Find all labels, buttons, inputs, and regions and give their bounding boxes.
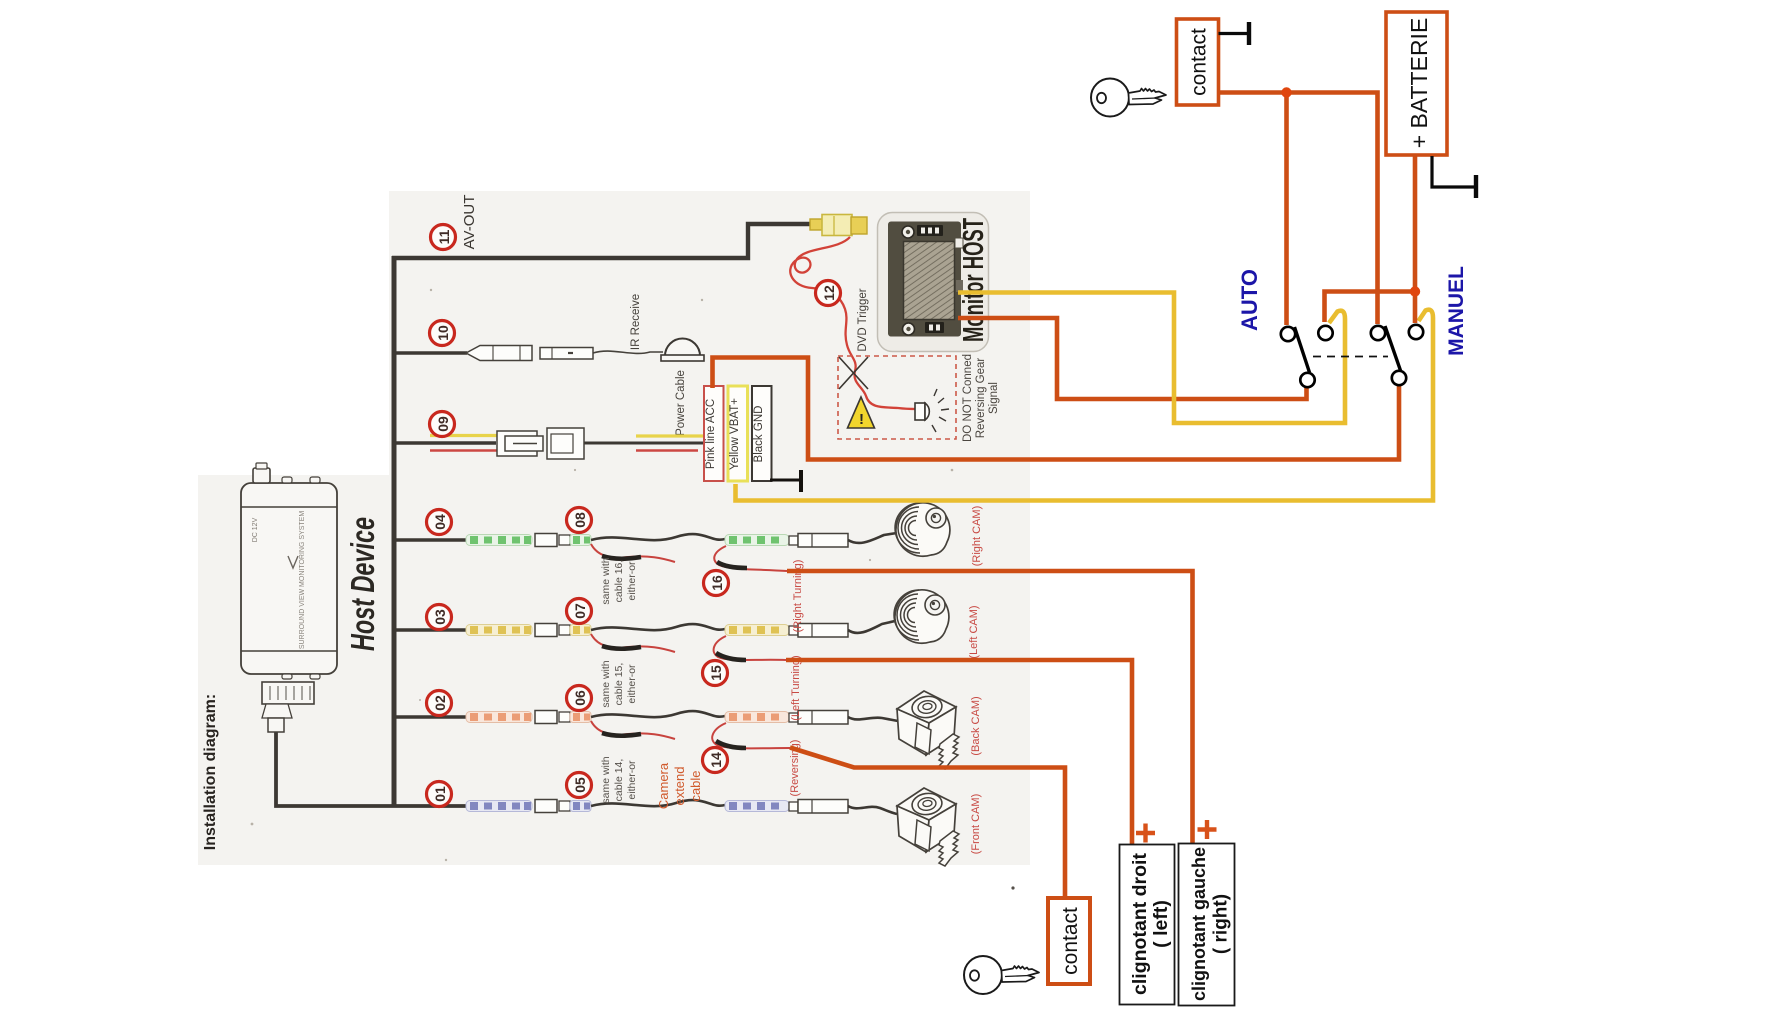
back CAM cube camera bbox=[897, 691, 959, 769]
front CAM cube camera bbox=[897, 788, 959, 866]
circle 04 bbox=[427, 510, 452, 535]
svg-text:16: 16 bbox=[709, 575, 725, 591]
svg-text:11: 11 bbox=[436, 229, 452, 244]
junction node at batterie wire bbox=[1410, 286, 1420, 296]
wire branch 02 bbox=[392, 715, 468, 719]
switch terminal C3 bbox=[1371, 326, 1385, 340]
switch terminal C2 bbox=[1318, 326, 1332, 340]
switch terminal C4 bbox=[1409, 325, 1423, 339]
svg-text:06: 06 bbox=[572, 690, 588, 706]
svg-text:contact: contact bbox=[1188, 28, 1211, 96]
svg-text:01: 01 bbox=[432, 786, 448, 802]
label same with cable 15 bbox=[600, 660, 638, 707]
svg-text:AUTO: AUTO bbox=[1237, 269, 1262, 331]
svg-text:02: 02 bbox=[432, 695, 448, 711]
svg-text:07: 07 bbox=[572, 603, 588, 619]
wire yellow: VBAT+ label to switch C4 bbox=[736, 310, 1434, 501]
wire orange: right turning to clignotant gauche bbox=[787, 571, 1193, 844]
label same with cable 14 bbox=[600, 756, 638, 803]
cable row 02 (back cam) bbox=[466, 711, 898, 749]
monitor HOST image bbox=[878, 213, 989, 352]
X mark bbox=[839, 357, 868, 389]
svg-text:cable 15,: cable 15, bbox=[613, 663, 625, 706]
key at contact bbox=[1091, 79, 1166, 117]
cable row 03 (left cam) bbox=[466, 621, 895, 660]
batterie box bbox=[1386, 12, 1447, 155]
svg-text:either-or: either-or bbox=[626, 664, 638, 704]
svg-text:Reversing Gear: Reversing Gear bbox=[975, 358, 987, 439]
ground at batterie bbox=[1432, 156, 1476, 187]
circle 09 bbox=[430, 412, 455, 437]
svg-text:10: 10 bbox=[435, 325, 451, 341]
svg-text:Black GND: Black GND bbox=[753, 406, 765, 463]
right CAM ball camera bbox=[895, 503, 950, 556]
cable row 04 (right cam) bbox=[466, 533, 897, 571]
svg-text:cable: cable bbox=[688, 770, 703, 801]
svg-text:03: 03 bbox=[432, 609, 448, 625]
svg-text:IR Receive: IR Receive bbox=[630, 294, 642, 350]
svg-text:either-or: either-or bbox=[626, 561, 638, 601]
svg-text:same with: same with bbox=[600, 660, 612, 707]
svg-text:SURROUND VIEW MONITORING SYSTE: SURROUND VIEW MONITORING SYSTEM bbox=[299, 511, 306, 649]
reversing lamp icon bbox=[915, 403, 925, 420]
svg-text:same with: same with bbox=[600, 756, 612, 803]
svg-text:clignotant gauche: clignotant gauche bbox=[1189, 847, 1209, 1001]
circle 15 bbox=[703, 661, 728, 686]
scan paper background upper bbox=[389, 191, 1030, 865]
switch lever 1 bbox=[1295, 327, 1310, 373]
wire branch 04 bbox=[392, 538, 468, 542]
svg-text:05: 05 bbox=[572, 777, 588, 793]
switch gang dashed link bbox=[1313, 356, 1388, 358]
svg-text:Pink line ACC: Pink line ACC bbox=[705, 399, 717, 469]
svg-text:MANUEL: MANUEL bbox=[1445, 266, 1468, 356]
IR receiver connector on branch 10 bbox=[466, 346, 593, 361]
junction node at contact wire bbox=[1281, 87, 1291, 97]
switch terminal C6 bbox=[1392, 371, 1406, 385]
IR receive dome bbox=[665, 339, 700, 357]
DVD trigger red wire bbox=[790, 237, 917, 409]
circle 12 bbox=[816, 281, 841, 306]
lower contact box bbox=[1048, 898, 1090, 984]
svg-text:(Right CAM): (Right CAM) bbox=[971, 506, 983, 567]
svg-text:Yellow VBAT+: Yellow VBAT+ bbox=[729, 398, 741, 470]
svg-text:(Back CAM): (Back CAM) bbox=[970, 696, 982, 755]
wire orange: contact to switch terminals C1 C3 bbox=[1219, 93, 1378, 325]
wire orange: reversing to lower contact bbox=[790, 748, 1065, 900]
svg-text:Camera: Camera bbox=[656, 762, 671, 809]
circle 03 bbox=[427, 605, 452, 630]
clignotant gauche box bbox=[1179, 844, 1235, 1006]
warning dashed box bbox=[838, 356, 956, 439]
RCA plug AV-OUT bbox=[810, 219, 823, 230]
plus sign gauche bbox=[1198, 820, 1217, 839]
wire branch 01 and host cable bbox=[276, 732, 468, 806]
svg-text:( right): ( right) bbox=[1211, 894, 1232, 954]
label box Yellow VBAT+ bbox=[728, 386, 748, 481]
circle 08 bbox=[567, 508, 592, 533]
scan paper background lower-left bbox=[198, 475, 393, 865]
svg-text:04: 04 bbox=[432, 514, 448, 530]
svg-text:( left): ( left) bbox=[1150, 900, 1172, 948]
circle 10 bbox=[430, 321, 455, 346]
power cable branch 09 colored leads bbox=[430, 434, 497, 437]
svg-text:DO NOT Conned: DO NOT Conned bbox=[962, 354, 974, 442]
scan speckles bbox=[251, 289, 954, 861]
circle 14 bbox=[703, 748, 728, 773]
svg-text:Signal: Signal bbox=[988, 382, 1000, 414]
svg-text:either-or: either-or bbox=[626, 760, 638, 800]
wire branch 09 bbox=[392, 441, 496, 445]
svg-text:Power Cable: Power Cable bbox=[675, 370, 687, 436]
svg-text:cable 16,: cable 16, bbox=[613, 560, 625, 603]
svg-text:clignotant droit: clignotant droit bbox=[1129, 853, 1151, 995]
cable row 01 (front cam) bbox=[466, 800, 897, 815]
circle 06 bbox=[567, 686, 592, 711]
wire orange: monitor to switch common C5 bbox=[958, 318, 1307, 399]
circle 11 bbox=[431, 225, 456, 250]
left CAM ball camera bbox=[894, 590, 949, 643]
switch lever 2 bbox=[1385, 326, 1401, 371]
circle 01 bbox=[427, 782, 452, 807]
label box Black GND bbox=[752, 386, 772, 481]
svg-text:DVD Trigger: DVD Trigger bbox=[857, 288, 869, 351]
wire branch 10 bbox=[392, 351, 467, 355]
svg-text:Monitor HOST: Monitor HOST bbox=[958, 218, 990, 342]
svg-text:(Front CAM): (Front CAM) bbox=[970, 794, 982, 855]
svg-text:Installation diagram:: Installation diagram: bbox=[202, 694, 219, 850]
wire yellow: monitor to switch C2 bbox=[958, 293, 1345, 424]
wire orange: ACC label to switch common C6 bbox=[713, 358, 1400, 460]
circle 02 bbox=[427, 691, 452, 716]
svg-text:!: ! bbox=[859, 411, 864, 428]
label DO NOT Conned Reversing Gear Signal bbox=[962, 354, 1000, 442]
wire orange: batterie to switch terminals C2 C4 bbox=[1413, 154, 1418, 323]
wire branch 03 bbox=[392, 628, 468, 632]
wire to IR dome bbox=[593, 351, 663, 353]
clignotant droit box bbox=[1120, 845, 1175, 1005]
switch terminal C5 bbox=[1300, 373, 1314, 387]
svg-text:14: 14 bbox=[708, 752, 724, 768]
svg-text:15: 15 bbox=[708, 665, 724, 681]
svg-text:same with: same with bbox=[600, 557, 612, 604]
wire orange: left turning to clignotant droit bbox=[786, 660, 1132, 845]
ground at contact bbox=[1219, 32, 1250, 35]
svg-text:extend: extend bbox=[672, 766, 687, 805]
svg-text:08: 08 bbox=[572, 512, 588, 528]
power cable connector pair bbox=[497, 428, 584, 459]
svg-text:Host Device: Host Device bbox=[344, 517, 381, 651]
label box Pink line ACC bbox=[704, 386, 724, 481]
svg-text:AV-OUT: AV-OUT bbox=[461, 195, 478, 250]
key at lower contact bbox=[964, 956, 1039, 994]
plus sign droit bbox=[1136, 824, 1155, 843]
ground from Black GND bbox=[770, 479, 801, 482]
svg-text:+ BATTERIE: + BATTERIE bbox=[1406, 18, 1432, 149]
circle 05 bbox=[567, 773, 592, 798]
wire branch 11 AV-OUT bbox=[392, 224, 811, 258]
label Camera extend cable bbox=[656, 762, 703, 809]
circle 16 bbox=[704, 571, 729, 596]
svg-text:12: 12 bbox=[821, 285, 837, 301]
warning triangle bbox=[848, 397, 875, 428]
svg-text:DC 12V: DC 12V bbox=[252, 517, 259, 542]
label same with cable 16 bbox=[600, 557, 638, 604]
wire main bus vertical bbox=[392, 256, 397, 806]
svg-text:cable 14,: cable 14, bbox=[613, 759, 625, 802]
host device bbox=[241, 463, 337, 732]
circle 07 bbox=[567, 599, 592, 624]
contact box (ignition) bbox=[1177, 19, 1219, 105]
svg-text:(Left CAM): (Left CAM) bbox=[968, 605, 980, 658]
svg-text:(Left Turning): (Left Turning) bbox=[790, 655, 802, 720]
switch terminal C1 bbox=[1281, 327, 1295, 341]
svg-text:contact: contact bbox=[1059, 907, 1082, 975]
svg-text:09: 09 bbox=[435, 416, 451, 432]
